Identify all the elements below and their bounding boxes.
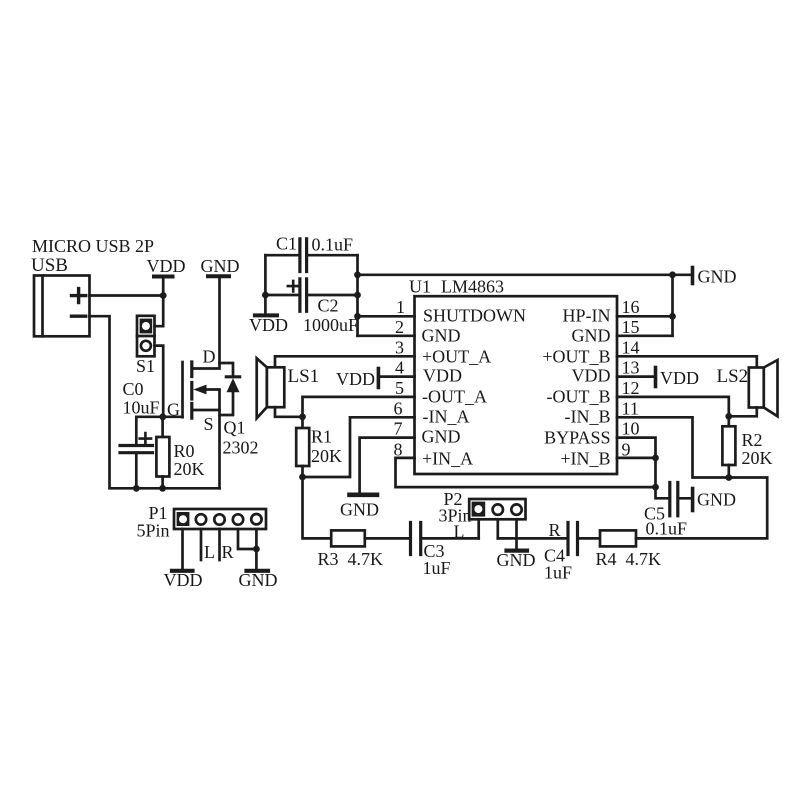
capacitor C5 labels bbox=[644, 504, 687, 539]
svg-text:7: 7 bbox=[394, 419, 403, 439]
svg-text:0.1uF: 0.1uF bbox=[646, 519, 688, 539]
svg-text:R: R bbox=[549, 520, 561, 540]
wire pin 3 to LS1 top bbox=[275, 356, 415, 367]
GND rail symbol top left bbox=[201, 256, 240, 276]
svg-text:20K: 20K bbox=[174, 459, 205, 479]
wire pin 5 to LS1 bottom node bbox=[303, 397, 415, 417]
capacitor C5 plates bbox=[670, 483, 678, 516]
wire C1/C2 right vertical to pin2 bbox=[356, 255, 359, 336]
wire P2 pin2 lead bbox=[496, 519, 499, 538]
capacitor C1 labels bbox=[276, 234, 353, 255]
node gate junction bbox=[159, 413, 166, 420]
svg-text:R: R bbox=[222, 542, 234, 562]
capacitor C2 labels bbox=[303, 296, 358, 336]
wire pin 16 bbox=[617, 315, 673, 318]
resistor R0 labels bbox=[174, 441, 205, 479]
header P1 L R labels bbox=[204, 542, 234, 562]
svg-text:+OUT_B: +OUT_B bbox=[542, 346, 610, 366]
speaker LS2 cone bbox=[764, 360, 778, 416]
speaker LS2 frame bbox=[749, 368, 764, 408]
wire P1 pin3 stub R bbox=[218, 529, 221, 560]
svg-text:1uF: 1uF bbox=[423, 558, 451, 578]
svg-text:-IN_A: -IN_A bbox=[423, 407, 470, 427]
capacitor C3 labels bbox=[423, 541, 451, 578]
header P2 pin2 hole bbox=[493, 504, 503, 514]
node top rail right junction bbox=[669, 271, 676, 278]
svg-text:S1: S1 bbox=[136, 356, 155, 376]
svg-text:GND: GND bbox=[422, 427, 461, 447]
node right vertical C2 junction bbox=[354, 292, 361, 299]
op-amp U1 designator bbox=[409, 277, 504, 297]
svg-text:9: 9 bbox=[622, 439, 631, 459]
capacitor C1 plates bbox=[300, 239, 307, 272]
VDD rail symbol at pin 4 bbox=[336, 369, 378, 390]
capacitor C0 label bbox=[123, 379, 160, 418]
VDD rail symbol top left bbox=[147, 256, 186, 296]
op-amp U1 body bbox=[415, 296, 618, 474]
svg-text:2: 2 bbox=[395, 317, 404, 337]
wire pin 4 bbox=[378, 375, 414, 378]
GND rail symbol below P2 bbox=[497, 550, 536, 570]
wire P2 pin1 lead bbox=[477, 519, 480, 538]
switch S1 body bbox=[137, 316, 155, 357]
svg-text:1uF: 1uF bbox=[544, 563, 572, 583]
header P1 labels bbox=[137, 503, 170, 541]
svg-text:6: 6 bbox=[394, 398, 403, 418]
resistor R4 bbox=[600, 530, 636, 546]
svg-text:13: 13 bbox=[622, 358, 640, 378]
wire R1 node down to R3 bbox=[303, 477, 332, 538]
header P2 labels bbox=[439, 489, 472, 542]
resistor R2 bbox=[722, 416, 735, 477]
wire pin 6 to R1 bottom node bbox=[303, 417, 415, 477]
svg-text:-IN_B: -IN_B bbox=[565, 407, 611, 427]
op-amp U1 left pin names bbox=[422, 306, 527, 469]
svg-text:BYPASS: BYPASS bbox=[544, 428, 610, 448]
wire USB- down and along bottom bbox=[90, 316, 220, 488]
svg-text:SHUTDOWN: SHUTDOWN bbox=[423, 306, 526, 326]
wire C4 to R4 bbox=[578, 537, 601, 540]
wire P2 to GND bbox=[515, 538, 518, 549]
wire top rail to GND symbol bbox=[358, 273, 693, 276]
svg-text:5: 5 bbox=[395, 378, 404, 398]
node right vertical pin1 junction bbox=[354, 313, 361, 320]
svg-text:3: 3 bbox=[395, 337, 404, 357]
svg-text:1000uF: 1000uF bbox=[303, 315, 358, 335]
speaker LS1 frame bbox=[267, 367, 285, 407]
svg-text:R4 4.7K: R4 4.7K bbox=[596, 549, 662, 569]
wire LS2 bottom terminal bbox=[729, 408, 757, 417]
wire P1 pin5 to GND bbox=[255, 529, 258, 570]
header P2 pin3 hole bbox=[511, 504, 521, 514]
wire S1 pin2 down to gate node bbox=[155, 346, 164, 417]
wire USB+ to VDD node bbox=[90, 294, 164, 297]
GND rail symbol top right bbox=[693, 267, 737, 287]
svg-text:+IN_B: +IN_B bbox=[560, 448, 610, 468]
svg-text:Q1: Q1 bbox=[224, 418, 246, 438]
node bypass wire junction bbox=[652, 484, 659, 491]
capacitor C0 polarity plus bbox=[140, 433, 151, 444]
node P1 pin4/5 junction bbox=[253, 546, 260, 553]
capacitor C2 polarity plus bbox=[288, 281, 299, 292]
USB connector inner edge bbox=[41, 276, 44, 337]
svg-text:GND: GND bbox=[239, 570, 278, 590]
wire C1 right bbox=[307, 254, 358, 257]
svg-text:GND: GND bbox=[572, 326, 611, 346]
wire pin 14 to LS2 top bbox=[617, 356, 757, 367]
wire C5 to GND bbox=[678, 497, 693, 500]
svg-text:L: L bbox=[454, 522, 465, 542]
wire pin 11 to R2 bottom node bbox=[617, 417, 729, 477]
svg-text:4: 4 bbox=[395, 358, 404, 378]
svg-text:R1: R1 bbox=[311, 427, 332, 447]
wire pin 2 bbox=[358, 334, 415, 337]
svg-text:VDD: VDD bbox=[164, 570, 203, 590]
capacitor C4 plates bbox=[568, 523, 578, 555]
svg-text:VDD: VDD bbox=[249, 315, 288, 335]
svg-text:20K: 20K bbox=[742, 448, 773, 468]
svg-text:5Pin: 5Pin bbox=[137, 521, 170, 541]
switch S1 cell divider bbox=[137, 335, 155, 338]
node junction VDD/USB+ bbox=[160, 292, 167, 299]
body diode triangle bbox=[227, 378, 240, 392]
resistor R2 labels bbox=[742, 430, 773, 468]
header P2 pin1 hole bbox=[474, 505, 482, 513]
node right vertical top wire junction bbox=[354, 271, 361, 278]
svg-text:USB: USB bbox=[31, 255, 68, 276]
wire P2 pin3 lead bbox=[515, 519, 518, 538]
svg-text:1: 1 bbox=[396, 297, 405, 317]
resistor R1 bbox=[296, 417, 309, 477]
svg-text:8: 8 bbox=[394, 439, 403, 459]
svg-text:GND: GND bbox=[497, 550, 536, 570]
wire P2 pin2 to pin3 bbox=[498, 537, 517, 540]
capacitor C0 plates bbox=[120, 446, 153, 453]
svg-text:R3 4.7K: R3 4.7K bbox=[318, 549, 384, 569]
svg-text:HP-IN: HP-IN bbox=[563, 306, 611, 326]
svg-text:D: D bbox=[203, 347, 216, 367]
header P1 pin4 hole bbox=[233, 514, 243, 524]
wire C0 to bottom rail bbox=[135, 453, 138, 489]
svg-text:LS2: LS2 bbox=[717, 366, 749, 387]
resistor R0 bbox=[156, 417, 169, 489]
svg-text:GND: GND bbox=[422, 326, 461, 346]
wire C1 left bbox=[265, 254, 300, 257]
switch S1 pin1 hole bbox=[142, 322, 150, 330]
svg-text:10: 10 bbox=[622, 419, 640, 439]
node LS1 bottom junction bbox=[299, 413, 306, 420]
wire pin 10 down to pin 9 bbox=[617, 438, 656, 458]
svg-text:VDD: VDD bbox=[660, 368, 699, 388]
svg-text:+OUT_A: +OUT_A bbox=[422, 346, 491, 366]
transistor Q1 gate plate bbox=[181, 362, 184, 417]
svg-text:VDD: VDD bbox=[147, 256, 186, 276]
wire S1 pin1 to VDD node bbox=[155, 296, 164, 327]
header P2 pin1 pad bbox=[472, 502, 486, 517]
svg-text:VDD: VDD bbox=[336, 369, 375, 389]
header P1 pin2 hole bbox=[196, 514, 206, 524]
wire P1 pin4 to pin5 bbox=[238, 529, 256, 549]
wire pin 7 to GND bbox=[360, 438, 415, 493]
header P1 pin3 hole bbox=[214, 514, 224, 524]
VDD rail symbol below P1 bbox=[164, 570, 203, 590]
svg-text:C1: C1 bbox=[276, 234, 297, 254]
speaker LS1 cone bbox=[257, 358, 267, 418]
wire R3 to C3 bbox=[365, 537, 411, 540]
wire GND rail to Q1 drain bbox=[218, 276, 221, 363]
svg-text:GND: GND bbox=[698, 267, 737, 287]
header P1 pin5 hole bbox=[251, 514, 261, 524]
switch S1 pin2 hole bbox=[141, 341, 151, 351]
svg-text:0.1uF: 0.1uF bbox=[312, 235, 354, 255]
transistor Q1 drain lead bbox=[192, 363, 220, 369]
connector J USB label MICRO USB 2P bbox=[31, 236, 154, 276]
header P1 pin1 hole bbox=[179, 515, 187, 523]
USB connector body bbox=[34, 276, 90, 337]
wire pin 8 under IC bbox=[396, 458, 656, 487]
wire pin 12 to LS2 bottom node bbox=[617, 397, 729, 416]
node LS2 bottom junction bbox=[725, 413, 732, 420]
transistor Q1 source lead bbox=[192, 410, 220, 488]
wire pin 9 bbox=[617, 457, 656, 460]
capacitor C3 plates bbox=[411, 523, 421, 555]
resistor R1 labels bbox=[311, 427, 342, 467]
node R0 bottom junction bbox=[159, 485, 166, 492]
svg-text:20K: 20K bbox=[311, 446, 342, 466]
wire pin15/16 vertical bbox=[671, 275, 674, 336]
wire pin 9 node down to C5 branch bbox=[656, 458, 670, 498]
wire pin 13 bbox=[617, 375, 656, 378]
svg-text:-OUT_A: -OUT_A bbox=[422, 386, 487, 406]
header P1 body bbox=[174, 509, 266, 529]
svg-text:-OUT_B: -OUT_B bbox=[547, 386, 611, 406]
GND rail symbol below pin 7 bbox=[340, 495, 379, 520]
svg-text:12: 12 bbox=[622, 378, 640, 398]
wire pin 15 bbox=[617, 334, 673, 337]
svg-text:G: G bbox=[167, 400, 180, 420]
VDD rail symbol below C2 bbox=[249, 315, 288, 335]
VDD rail symbol at pin 13 bbox=[656, 368, 700, 389]
svg-text:GND: GND bbox=[340, 500, 379, 520]
wire gate node to Q1 gate bbox=[163, 415, 182, 418]
wire C2 right bbox=[307, 294, 358, 297]
svg-text:VDD: VDD bbox=[572, 366, 611, 386]
svg-text:C2: C2 bbox=[318, 296, 339, 316]
svg-text:GND: GND bbox=[697, 490, 736, 510]
node R2 bottom junction bbox=[725, 474, 732, 481]
wire C2 left bbox=[265, 294, 300, 297]
node pin16 junction bbox=[669, 313, 676, 320]
svg-text:2302: 2302 bbox=[223, 438, 259, 458]
USB minus terminal mark bbox=[72, 315, 86, 318]
wire LS1 bottom terminal bbox=[275, 407, 303, 417]
header P1 pin1 pad bbox=[177, 512, 190, 526]
wire C3 to P2 pin1 bbox=[421, 537, 479, 540]
svg-text:VDD: VDD bbox=[423, 366, 462, 386]
wire P1 pin1 to VDD bbox=[181, 529, 184, 570]
GND rail symbol at C5 bbox=[693, 489, 736, 511]
GND rail symbol below P1 bbox=[239, 570, 278, 590]
USB plus terminal mark bbox=[72, 289, 86, 303]
wire gate node to C0 bbox=[136, 417, 163, 446]
node C2 left junction bbox=[262, 292, 269, 299]
body diode top connector bbox=[220, 363, 234, 377]
body diode cathode bar bbox=[226, 375, 239, 378]
transistor Q1 substrate arrow tail bbox=[205, 390, 220, 411]
svg-text:LM4863: LM4863 bbox=[441, 277, 504, 297]
wire P2 pin3 to C4 bbox=[517, 537, 569, 540]
node C0 bottom junction bbox=[133, 485, 140, 492]
svg-text:11: 11 bbox=[622, 398, 639, 418]
op-amp U1 right pin names bbox=[542, 306, 610, 469]
svg-text:L: L bbox=[204, 542, 215, 562]
svg-text:15: 15 bbox=[622, 317, 640, 337]
transistor Q1 substrate arrowhead bbox=[193, 385, 206, 395]
svg-text:LS1: LS1 bbox=[288, 366, 320, 387]
node pin9 junction bbox=[652, 455, 659, 462]
svg-text:14: 14 bbox=[622, 337, 640, 357]
transistor Q1 terminal labels bbox=[167, 347, 216, 435]
switch S1 pin1 pad bbox=[140, 319, 153, 334]
header P2 body bbox=[469, 499, 525, 519]
capacitor C4 labels bbox=[544, 546, 572, 583]
wire P1 pin2 stub L bbox=[200, 529, 203, 560]
resistor R3 bbox=[331, 530, 365, 546]
svg-text:10uF: 10uF bbox=[123, 398, 160, 418]
svg-text:MICRO USB 2P: MICRO USB 2P bbox=[32, 236, 154, 256]
svg-text:U1: U1 bbox=[409, 277, 431, 297]
svg-text:+IN_A: +IN_A bbox=[422, 448, 473, 468]
node R1 bottom junction bbox=[299, 474, 306, 481]
svg-text:S: S bbox=[204, 414, 214, 434]
svg-text:GND: GND bbox=[201, 256, 240, 276]
svg-text:C0: C0 bbox=[123, 379, 144, 399]
wire pin 1 bbox=[358, 315, 415, 318]
transistor Q1 designator bbox=[223, 418, 259, 458]
capacitor C2 plates bbox=[300, 279, 307, 312]
body diode bottom connector bbox=[220, 392, 234, 415]
wire C1/C2 left vertical bbox=[264, 255, 267, 315]
wire R4 up to R2 bottom node bbox=[636, 478, 767, 539]
transistor Q1 channel segments bbox=[190, 362, 193, 418]
svg-text:16: 16 bbox=[622, 297, 640, 317]
